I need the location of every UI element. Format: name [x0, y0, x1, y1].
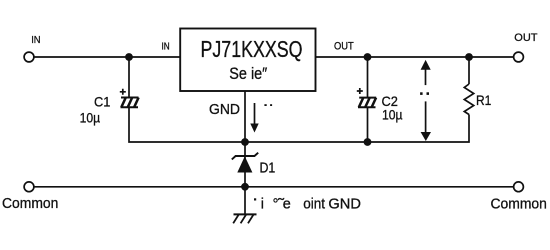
svg-text:IN: IN — [31, 34, 40, 46]
svg-text:i: i — [261, 197, 264, 213]
svg-text:IN: IN — [162, 40, 170, 52]
svg-text:OUT: OUT — [514, 32, 537, 44]
svg-text:10µ: 10µ — [382, 106, 403, 122]
svg-text:R1: R1 — [476, 92, 491, 108]
svg-text:e: e — [283, 197, 291, 213]
svg-text:Common: Common — [2, 196, 58, 212]
svg-text:PJ71KXXSQ: PJ71KXXSQ — [201, 36, 303, 62]
svg-text:10µ: 10µ — [80, 110, 101, 126]
svg-text:oint: oint — [303, 197, 325, 213]
svg-text:GND: GND — [209, 102, 240, 118]
svg-text:D1: D1 — [260, 160, 276, 176]
svg-text:GND: GND — [328, 197, 361, 213]
svg-text:Common: Common — [491, 197, 547, 213]
svg-text:Se ie″: Se ie″ — [229, 65, 267, 83]
svg-text:OUT: OUT — [334, 40, 354, 52]
svg-text:C1: C1 — [94, 94, 111, 110]
